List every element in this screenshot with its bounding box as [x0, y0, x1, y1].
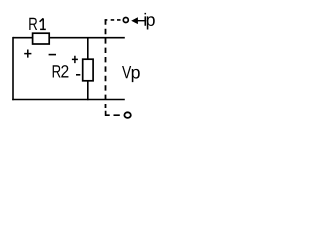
- plus sign of R2 polarity: [72, 56, 78, 63]
- terminal node: bottom open circle: [124, 112, 130, 118]
- resistor R1 (box): [33, 33, 50, 44]
- terminal node: top open circle: [123, 18, 128, 23]
- label ip: letter p: [147, 16, 155, 29]
- label R1: letter R: [29, 18, 37, 30]
- dashed port line: bottom horizontal segments: [105, 111, 120, 115]
- minus sign of R1 polarity: [49, 54, 56, 56]
- label Vp: letter p: [132, 69, 140, 82]
- dashed port line: top horizontal segments: [105, 19, 121, 21]
- label R2: letter R: [53, 65, 61, 77]
- current arrow ip (tail): [133, 20, 146, 22]
- resistor R2 (box): [83, 59, 93, 81]
- label ip: letter i: [144, 13, 146, 26]
- label R1: digit 1 (footed glyph): [40, 18, 46, 29]
- plus sign of R1 polarity: [24, 50, 31, 58]
- current arrow ip (head, pointing left): [131, 17, 138, 24]
- minus sign of R2 polarity: [76, 74, 80, 76]
- wire: bottom horizontal: [12, 99, 125, 101]
- dashed port line: vertical: [105, 19, 107, 108]
- label R2: digit 2: [61, 65, 68, 77]
- wire: R2 bottom lead: [87, 81, 89, 100]
- wire: vertical branch from top wire to R2: [87, 37, 89, 59]
- wire: left vertical side: [12, 37, 14, 100]
- wire: top horizontal: [13, 37, 125, 39]
- label Vp: letter V: [122, 66, 131, 78]
